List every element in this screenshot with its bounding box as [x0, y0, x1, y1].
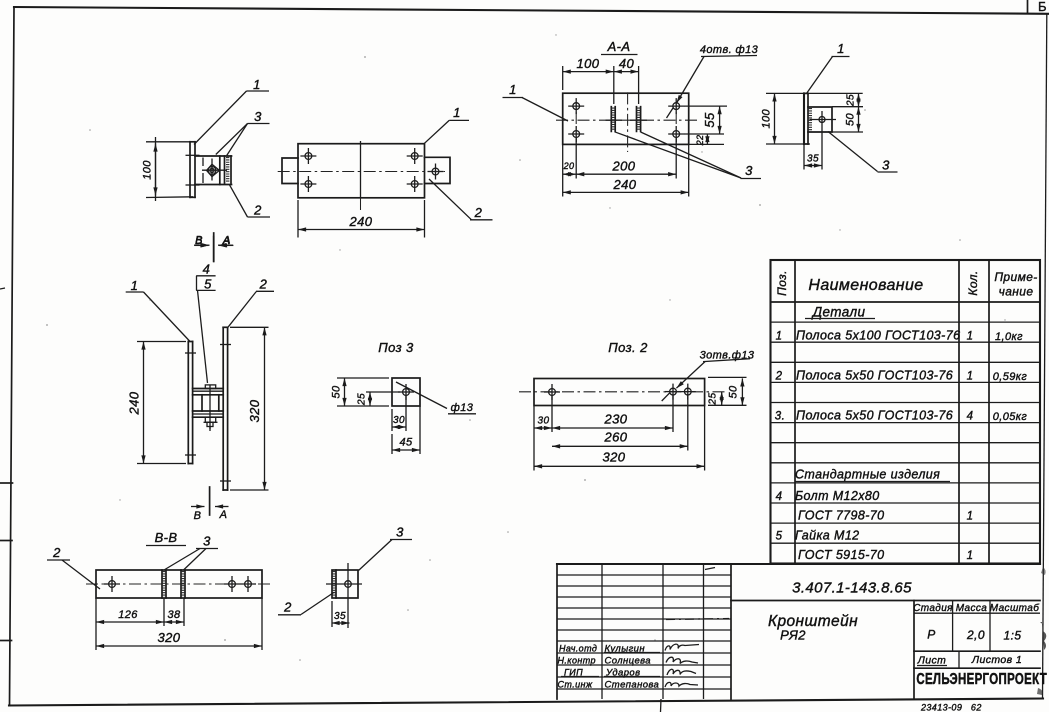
- dim bottom ext lines: [562, 144, 564, 196]
- plate pos1 edge bar: [189, 142, 191, 198]
- svg-text:240: 240: [349, 214, 373, 229]
- dim 100 line: [155, 144, 157, 196]
- view A-A section: [503, 39, 762, 197]
- name cell divider: [913, 601, 915, 700]
- centerline vertical: [360, 141, 362, 199]
- plate pos1 outline: [298, 144, 425, 198]
- svg-text:5: 5: [776, 531, 783, 543]
- svg-text:Гайка М12: Гайка М12: [795, 529, 860, 543]
- plate pos1 edge bar: [803, 93, 805, 144]
- svg-text:320: 320: [247, 399, 262, 422]
- svg-text:320: 320: [603, 450, 626, 465]
- hole TL: [568, 98, 584, 114]
- dim 25 right: [721, 392, 723, 406]
- bottom flange plates pos3: [193, 410, 224, 412]
- svg-text:Стандартные изделия: Стандартные изделия: [795, 468, 940, 482]
- nut pos5: [205, 417, 215, 422]
- slot bar right (pos3): [636, 107, 638, 132]
- hatched bar left: [161, 570, 163, 598]
- svg-text:2: 2: [259, 277, 268, 292]
- hole right 2: [680, 384, 696, 400]
- top flange plates pos3: [193, 388, 224, 390]
- dim 230: [552, 427, 673, 429]
- svg-text:40: 40: [619, 56, 635, 71]
- svg-text:Лист: Лист: [917, 655, 947, 667]
- hole BR: [407, 176, 423, 192]
- svg-text:20: 20: [563, 161, 575, 171]
- dim 320: [264, 327, 266, 490]
- svg-text:25: 25: [357, 393, 368, 406]
- svg-text:30: 30: [393, 415, 405, 426]
- view pos.3 detail: [331, 340, 477, 454]
- bend dashes: [202, 158, 204, 167]
- svg-text:Нач.отд: Нач.отд: [559, 644, 597, 654]
- svg-text:Р: Р: [927, 628, 935, 642]
- svg-text:ГОСТ 7798-70: ГОСТ 7798-70: [798, 509, 885, 523]
- svg-text:2: 2: [253, 203, 262, 218]
- dim 38: [164, 621, 184, 623]
- hole BL: [300, 176, 316, 192]
- below-frame column tick: [660, 699, 663, 712]
- svg-text:В-В: В-В: [155, 530, 178, 545]
- centerline horizontal: [556, 119, 700, 121]
- view pos.3 edge detail square: [278, 525, 412, 629]
- dim 35: [332, 622, 350, 624]
- plate pos2 bar: [534, 379, 705, 406]
- svg-text:3.407.1-143.8.65: 3.407.1-143.8.65: [792, 580, 912, 597]
- svg-text:240: 240: [613, 177, 637, 192]
- dim 25: [858, 93, 860, 106]
- svg-text:35: 35: [334, 611, 346, 622]
- svg-text:3: 3: [254, 109, 262, 124]
- org name: [914, 667, 1040, 669]
- dim 100 ext bottom: [146, 196, 193, 199]
- signature table verticals: [556, 564, 558, 699]
- dim 35: [804, 165, 822, 167]
- view pos.2 detail: [519, 340, 755, 471]
- svg-text:3: 3: [882, 158, 890, 173]
- hole: [398, 384, 414, 400]
- svg-text:Листов 1: Листов 1: [971, 654, 1022, 666]
- svg-text:200: 200: [612, 159, 636, 174]
- header bottom line: [771, 301, 1041, 303]
- svg-text:2: 2: [52, 545, 61, 560]
- edge smudges: [1040, 622, 1046, 650]
- row lines: [771, 321, 1041, 323]
- title block: [557, 564, 1047, 699]
- leader dia13: [396, 382, 447, 409]
- channel inner flange line: [219, 156, 221, 185]
- svg-text:Б: Б: [1038, 0, 1047, 14]
- svg-text:1:5: 1:5: [1004, 629, 1022, 643]
- leader 2: [429, 179, 472, 220]
- centerline horizontal: [278, 171, 445, 173]
- svg-text:0,05кг: 0,05кг: [993, 411, 1028, 423]
- svg-text:Масса: Масса: [956, 603, 988, 614]
- svg-text:Наименование: Наименование: [808, 277, 923, 294]
- svg-text:1: 1: [967, 511, 974, 523]
- svg-text:100: 100: [577, 56, 600, 71]
- svg-text:55: 55: [702, 112, 717, 128]
- hole left: [544, 384, 560, 400]
- web verticals: [201, 395, 203, 411]
- svg-text:А: А: [219, 509, 228, 521]
- svg-text:4: 4: [203, 262, 211, 277]
- hole tab: [428, 164, 444, 180]
- svg-text:1: 1: [131, 278, 139, 293]
- svg-text:3: 3: [745, 163, 753, 178]
- leader 1: [807, 57, 833, 94]
- frame bottom line: [9, 699, 1043, 706]
- dash-dot marks mid row: [666, 619, 729, 620]
- dim 50: [858, 107, 860, 132]
- dim 126: [96, 621, 164, 623]
- svg-text:Н.контр: Н.контр: [558, 656, 596, 666]
- centerline: [519, 391, 725, 393]
- svg-text:Кол.: Кол.: [966, 270, 980, 295]
- svg-text:Масштаб: Масштаб: [990, 602, 1040, 614]
- dim 200 bottom: [576, 173, 676, 175]
- dim 100 top: [563, 71, 614, 73]
- stage mass scale headers: [952, 601, 954, 652]
- view B-B section: [47, 530, 270, 650]
- svg-text:25: 25: [708, 393, 719, 406]
- left edge mark: [0, 288, 5, 289]
- left margin tick 2: [0, 540, 12, 542]
- dim 40 top: [614, 71, 639, 73]
- signature table rows: [557, 574, 731, 576]
- svg-text:3: 3: [396, 525, 404, 540]
- dim 260: [552, 445, 688, 447]
- svg-text:38: 38: [167, 609, 181, 621]
- list row: [914, 650, 1040, 652]
- svg-text:3.: 3.: [775, 411, 785, 423]
- svg-text:1: 1: [967, 550, 974, 562]
- svg-text:А-А: А-А: [607, 39, 631, 54]
- svg-text:1: 1: [967, 331, 974, 343]
- bolt hole circle: [210, 168, 214, 172]
- hole TR: [407, 148, 423, 164]
- dim 20 bottom: [563, 173, 577, 175]
- svg-text:126: 126: [118, 609, 138, 621]
- svg-text:А: А: [222, 235, 231, 247]
- svg-text:50: 50: [331, 385, 343, 399]
- bar outline: [96, 570, 262, 598]
- frame right line: [1043, 14, 1047, 699]
- signature 1: [665, 644, 699, 650]
- svg-text:1: 1: [837, 41, 845, 56]
- small dash top right cell: [705, 568, 715, 570]
- svg-text:240: 240: [127, 391, 142, 415]
- svg-text:Приме-: Приме-: [994, 270, 1037, 284]
- dim 50 right: [741, 378, 743, 405]
- table outer border: [771, 260, 1041, 564]
- svg-text:Ст.инж: Ст.инж: [558, 680, 593, 690]
- dim 240: [143, 342, 145, 464]
- dim 55: [719, 106, 721, 134]
- vertical dash centerline left pair: [575, 112, 577, 128]
- svg-text:СЕЛЬЭНЕРГОПРОЕКТ: СЕЛЬЭНЕРГОПРОЕКТ: [916, 671, 1047, 688]
- svg-text:Полоса 5х100 ГОСТ103-76: Полоса 5х100 ГОСТ103-76: [796, 329, 960, 343]
- svg-text:4отв. ф13: 4отв. ф13: [700, 44, 759, 56]
- svg-text:3: 3: [203, 534, 211, 549]
- dim 240: [298, 229, 425, 231]
- svg-text:4: 4: [776, 491, 783, 503]
- vertical dash centerline right pair: [675, 112, 677, 128]
- hole right 1: [224, 576, 240, 592]
- parts list table: [771, 260, 1041, 564]
- svg-text:В: В: [194, 510, 202, 522]
- dim 100 ext top: [146, 141, 193, 143]
- plate pos3 square: [392, 378, 420, 406]
- left margin tick 3: [0, 640, 12, 642]
- svg-text:23413-09 62: 23413-09 62: [920, 703, 982, 712]
- dim 30: [534, 427, 552, 429]
- svg-text:1: 1: [509, 82, 517, 97]
- dim 45: [392, 449, 420, 451]
- svg-text:В: В: [195, 235, 203, 247]
- signature 4: [665, 682, 698, 687]
- bolt head diamond: [207, 164, 220, 176]
- svg-text:25: 25: [846, 94, 857, 107]
- section mark B-A bottom: [209, 487, 211, 515]
- channel pos2 top: [195, 155, 232, 157]
- svg-text:100: 100: [761, 108, 773, 128]
- leader 3: [828, 132, 878, 172]
- hole right 1: [665, 384, 681, 400]
- column line pos: [794, 260, 796, 564]
- square outline: [332, 570, 358, 598]
- bolt crosshair: [202, 169, 227, 171]
- view middle-left: assembly front view: [126, 233, 274, 522]
- svg-text:5: 5: [204, 277, 212, 292]
- ext lines: [533, 406, 535, 471]
- svg-text:1: 1: [776, 331, 783, 343]
- doc number cell line: [731, 600, 1040, 602]
- bolt pos4: [209, 386, 211, 430]
- channel pos2 bottom: [195, 184, 232, 186]
- hole: [345, 581, 352, 588]
- hole left: [104, 576, 120, 592]
- slot bar left (pos3): [610, 107, 612, 132]
- hole: [819, 117, 825, 123]
- svg-text:230: 230: [604, 412, 628, 427]
- right tab pos2: [425, 157, 451, 183]
- svg-text:4: 4: [967, 411, 974, 423]
- svg-text:Детали: Детали: [811, 305, 866, 320]
- svg-text:Стадия: Стадия: [913, 603, 953, 614]
- svg-text:Поз 3: Поз 3: [378, 340, 414, 355]
- svg-text:0,59кг: 0,59кг: [993, 371, 1028, 383]
- svg-text:ф13: ф13: [451, 402, 474, 414]
- section mark B-A below: [213, 237, 215, 262]
- section mark B-A top: [213, 233, 215, 262]
- svg-text:1: 1: [453, 105, 461, 120]
- svg-text:чание: чание: [999, 285, 1034, 299]
- hole BR: [668, 126, 684, 142]
- dim 100: [774, 93, 776, 144]
- column line qty: [958, 260, 960, 564]
- hole right 2: [240, 576, 256, 592]
- hatched bar right: [180, 570, 182, 598]
- svg-text:ГОСТ 5915-70: ГОСТ 5915-70: [798, 548, 885, 562]
- svg-text:45: 45: [399, 437, 413, 449]
- plate pos1 left: [187, 342, 189, 464]
- centerline vertical mid: [627, 92, 629, 152]
- svg-text:2: 2: [283, 600, 292, 615]
- svg-text:35: 35: [807, 154, 819, 165]
- svg-text:50: 50: [845, 113, 857, 127]
- frame left line: [10, 7, 15, 706]
- svg-text:30: 30: [538, 416, 550, 427]
- svg-text:50: 50: [728, 385, 740, 399]
- hole TR: [668, 98, 684, 114]
- zone divider top right: [1027, 0, 1029, 13]
- dim 240 bottom: [563, 191, 689, 193]
- centerline horizontal: [326, 583, 362, 585]
- svg-text:1: 1: [967, 371, 974, 383]
- svg-text:1,0кг: 1,0кг: [995, 331, 1023, 343]
- left margin tick 1: [0, 482, 13, 484]
- ext lines: [95, 598, 97, 650]
- svg-text:320: 320: [158, 630, 181, 645]
- dim 25: [369, 392, 371, 406]
- signature 2: [666, 657, 698, 663]
- dim 30: [392, 426, 406, 428]
- svg-text:Поз. 2: Поз. 2: [608, 340, 648, 355]
- dim 22: [706, 134, 708, 144]
- hatch strip: [809, 108, 812, 131]
- hatched left edge: [335, 570, 337, 598]
- view top-middle: bracket plan view: [278, 105, 493, 238]
- bracket pos3 outline: [808, 107, 832, 132]
- svg-text:260: 260: [604, 430, 628, 445]
- svg-text:Полоса 5х50 ГОСТ103-76: Полоса 5х50 ГОСТ103-76: [796, 369, 953, 383]
- svg-text:РЯ2: РЯ2: [780, 628, 806, 643]
- view top-right: end view: [761, 41, 898, 173]
- svg-text:Солнцева: Солнцева: [605, 656, 651, 667]
- plate pos1 weld ticks: [186, 154, 200, 156]
- left tab pos2: [282, 158, 298, 184]
- slot crosshair lines: [606, 119, 623, 121]
- signature 3: [667, 669, 696, 675]
- plate outline: [563, 93, 689, 144]
- dim 320: [534, 465, 705, 467]
- hole BL: [568, 126, 584, 142]
- svg-text:Полоса 5х50 ГОСТ103-76: Полоса 5х50 ГОСТ103-76: [796, 409, 953, 423]
- svg-text:100: 100: [142, 160, 154, 180]
- dim top ext lines: [562, 66, 564, 90]
- svg-text:2: 2: [775, 371, 783, 383]
- svg-text:2: 2: [474, 205, 483, 220]
- svg-text:1: 1: [253, 77, 261, 92]
- column line note: [988, 260, 990, 564]
- svg-text:Поз.: Поз.: [775, 270, 789, 296]
- bolt washer circle: [208, 167, 216, 175]
- title block top line: [557, 563, 1040, 565]
- dim 50: [344, 378, 346, 406]
- centerline: [86, 583, 270, 585]
- svg-text:2,0: 2,0: [966, 628, 985, 642]
- view top-left: bracket side view: [142, 77, 271, 261]
- dim 320: [96, 645, 262, 647]
- leader 1: [424, 120, 450, 144]
- centerline vertical: [347, 563, 349, 628]
- plate pos3 hatched bar: [224, 156, 226, 183]
- plate pos2 right: [222, 327, 224, 490]
- svg-text:Болт М12х80: Болт М12х80: [795, 489, 880, 503]
- svg-text:Степанова: Степанова: [605, 680, 660, 691]
- hole TL: [300, 148, 316, 164]
- frame top line: [14, 7, 1048, 14]
